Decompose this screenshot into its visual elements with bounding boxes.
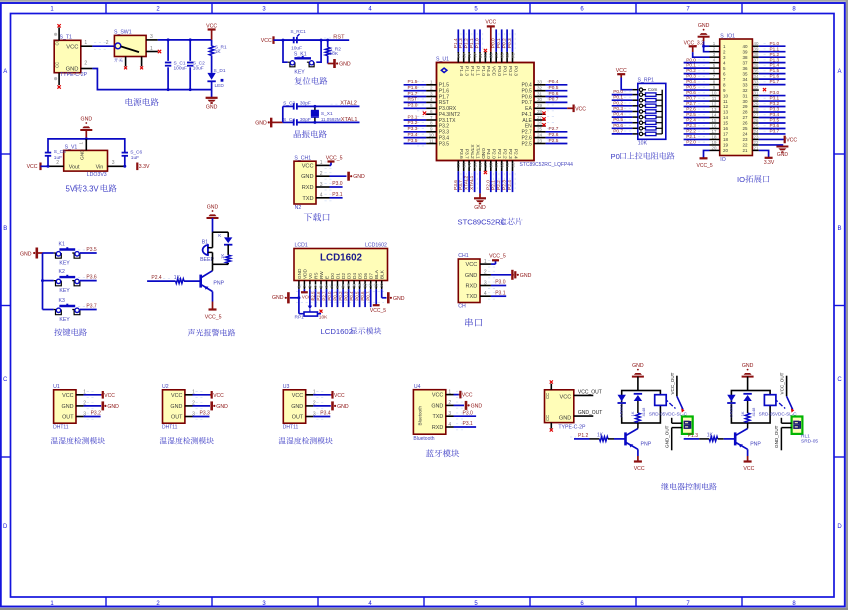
wire net P0.5 (LCD) <box>359 289 361 307</box>
capacitor S_C6 1uF <box>122 149 143 166</box>
svg-text:7: 7 <box>430 115 433 120</box>
power port GND (download) <box>349 172 365 181</box>
wire GND to alarm node <box>212 218 214 232</box>
svg-text:34: 34 <box>510 53 515 59</box>
svg-text:3: 3 <box>112 160 115 166</box>
svg-text:39: 39 <box>742 49 748 54</box>
MCU pin 14 (XTAL2) <box>467 161 472 172</box>
svg-text:21: 21 <box>742 148 748 153</box>
svg-text:CH1: CH1 <box>458 253 468 259</box>
no-connect X on MCU pin 26 <box>542 123 545 126</box>
svg-text:28: 28 <box>754 107 759 112</box>
svg-text:19: 19 <box>712 140 717 145</box>
svg-text:24: 24 <box>537 132 543 137</box>
svg-text:KEY: KEY <box>59 288 70 294</box>
wire LCD BLA pin15 to VCC_5 <box>370 289 386 314</box>
svg-text:P1.3: P1.3 <box>458 38 464 48</box>
connector CH1 serial <box>458 253 497 309</box>
svg-text:25: 25 <box>742 126 748 131</box>
MCU pin 3 (P1.7) <box>417 91 437 99</box>
svg-text:P2.1: P2.1 <box>686 134 696 139</box>
svg-text:GND_OUT: GND_OUT <box>774 425 779 448</box>
wire net P2.0 (IO left) <box>684 144 710 146</box>
wire net P1.3 (IO right) <box>759 62 786 64</box>
svg-text:GND: GND <box>339 62 351 68</box>
svg-text:P3.7: P3.7 <box>86 304 97 310</box>
capacitor S_C4 30pF <box>283 117 311 126</box>
title 按键电路 <box>54 328 87 336</box>
svg-text:P2.1: P2.1 <box>491 180 497 190</box>
wire net P3.0 (U4 TXD) <box>454 415 477 417</box>
svg-text:P1.2: P1.2 <box>464 38 470 48</box>
svg-text:BLK: BLK <box>380 269 385 279</box>
title 温湿度检测模块 (U3) <box>278 437 332 444</box>
no-connect X on MCU pin 39 <box>484 49 487 52</box>
wire net P2.2 (MCU bottom) <box>501 171 503 192</box>
connector RL (relay P1.2) <box>664 417 692 451</box>
svg-text:B: B <box>3 226 7 232</box>
resistor 1K (relay branch P1.3) <box>740 401 750 423</box>
svg-text:P2.5: P2.5 <box>522 141 533 147</box>
svg-text:P2.4: P2.4 <box>512 149 518 159</box>
svg-text:2: 2 <box>84 61 87 67</box>
wire net P3.1 (U4 RXD) <box>454 426 477 428</box>
wire net P1.7 (IO right) <box>759 84 786 86</box>
svg-text:27: 27 <box>742 115 748 120</box>
svg-text:LCD1: LCD1 <box>295 243 308 249</box>
LCD pin 1 (GND) <box>296 281 301 290</box>
svg-text:1K: 1K <box>597 433 604 439</box>
svg-text:16: 16 <box>379 283 384 288</box>
wire net P2.6 (IO left) <box>684 111 710 113</box>
wire net P0.4 (pull-up) <box>612 116 633 118</box>
MCU pin 8 (P3.2) <box>417 121 437 129</box>
resistor S_R2 10K <box>325 40 341 63</box>
capacitor S_C1 100uF <box>165 40 187 90</box>
svg-text:S_IO1: S_IO1 <box>720 34 735 40</box>
wire net P2.6 (MCU right) <box>546 137 568 139</box>
wire T1-VCC to switch <box>92 45 114 47</box>
svg-text:P3.6: P3.6 <box>86 275 97 281</box>
power port VCC_5 (alarm) <box>205 302 222 321</box>
power port VCC_5 (download) <box>326 155 343 165</box>
connector S_T1 TYPE-C-2P <box>54 28 92 86</box>
MCU pin 24 (P2.6) <box>534 132 555 137</box>
LCD pin 16 (BLK) <box>379 281 384 290</box>
svg-text:P0.1: P0.1 <box>496 38 502 48</box>
svg-text:11: 11 <box>723 99 728 104</box>
svg-text:GND: GND <box>80 149 86 160</box>
svg-text:1K: 1K <box>220 254 225 259</box>
wire net P1.1 (IO right) <box>759 51 786 53</box>
svg-text:VCC: VCC <box>206 23 217 29</box>
power port VCC (relay P1.2) <box>634 456 645 472</box>
svg-text:33: 33 <box>742 82 748 87</box>
svg-text:P0.6: P0.6 <box>686 90 696 95</box>
wire net P3.3 (MCU left) <box>404 131 427 133</box>
wire net P0.1 (IO left) <box>684 67 710 69</box>
svg-text:GND: GND <box>393 296 405 302</box>
svg-text:25: 25 <box>754 123 759 128</box>
wire net P0.0 (LCD) <box>331 289 333 307</box>
wire U2 VCC <box>193 394 211 396</box>
wire net P0.7 (LCD) <box>370 289 372 307</box>
buzzer B1 BEEP <box>200 232 214 264</box>
wire net P2.3 (MCU bottom) <box>506 171 508 192</box>
svg-text:P2.3: P2.3 <box>686 123 696 128</box>
svg-text:P0.5: P0.5 <box>549 85 559 91</box>
svg-text:VCC: VCC <box>27 164 38 170</box>
svg-text:10K: 10K <box>638 141 648 147</box>
svg-text:VCC_5: VCC_5 <box>489 254 506 260</box>
wire net P3.1 (MCU left) <box>404 119 427 121</box>
svg-text:36: 36 <box>500 53 505 59</box>
svg-text:P3.2: P3.2 <box>91 411 102 417</box>
svg-text:31: 31 <box>537 91 543 96</box>
svg-text:P3.4: P3.4 <box>408 132 418 138</box>
svg-text:P3.4: P3.4 <box>320 411 331 417</box>
svg-text:27: 27 <box>754 112 759 117</box>
MCU pin 34 (P0.3) <box>510 52 515 63</box>
svg-text:P1.4: P1.4 <box>770 63 780 68</box>
svg-text:P0.6: P0.6 <box>360 291 365 301</box>
title 电源电路 <box>126 98 159 106</box>
LCD pin 2 (VDD) <box>302 281 307 290</box>
svg-text:Bluetooth: Bluetooth <box>418 406 423 426</box>
svg-text:1: 1 <box>78 142 83 145</box>
svg-text:3.3V: 3.3V <box>764 160 775 166</box>
no-connect X on MCU pin 27 <box>542 117 545 120</box>
resistor pack S_RP1 10K <box>632 78 665 147</box>
svg-text:37: 37 <box>494 53 499 59</box>
svg-text:28: 28 <box>537 109 543 114</box>
svg-text:P0.2: P0.2 <box>338 291 343 301</box>
LCD pin 11 (D4) <box>352 281 357 290</box>
svg-text:VCC_OUT: VCC_OUT <box>578 389 602 395</box>
IO right pin stubs <box>752 41 759 150</box>
wire IO pin23 to VCC <box>759 138 784 140</box>
svg-text:GND: GND <box>297 268 302 279</box>
MCU pin 21 (P2.3) <box>505 161 510 172</box>
svg-text:P0.2: P0.2 <box>507 66 513 76</box>
wire net P2.7 (MCU right) <box>546 131 568 133</box>
svg-text:GND: GND <box>107 404 119 410</box>
svg-text:P0.6: P0.6 <box>549 91 559 97</box>
no-connect X on RP1 <box>320 310 323 313</box>
svg-text:34: 34 <box>754 74 759 79</box>
LCD pin 5 (RW) <box>319 281 324 290</box>
wire reset left branch <box>283 40 288 62</box>
svg-text:Com: Com <box>648 87 658 92</box>
MCU pin 28 (P4.1) <box>534 109 555 114</box>
svg-text:CC: CC <box>545 393 550 399</box>
relay driver frame P1.2 <box>622 391 661 424</box>
wire net P2.7 (LCD) <box>326 289 328 307</box>
svg-text:P3.3: P3.3 <box>200 411 211 417</box>
LCD pin 7 (D0) <box>330 281 335 290</box>
svg-text:XTAL2: XTAL2 <box>340 101 357 107</box>
wire net P3.6 (MCU bottom) <box>457 171 459 192</box>
svg-text:44: 44 <box>456 53 461 59</box>
MCU pin 10 (P3.4) <box>417 132 437 140</box>
svg-text:33: 33 <box>754 79 759 84</box>
wire net P1.1 (MCU top) <box>474 29 476 52</box>
svg-text:KEY: KEY <box>294 70 305 76</box>
svg-text:18: 18 <box>723 137 729 142</box>
svg-text:P1.4: P1.4 <box>458 66 464 76</box>
svg-text:TYPE-C-2P: TYPE-C-2P <box>60 72 88 78</box>
MCU pin 7 (P3.1TX) <box>417 115 437 123</box>
svg-text:P0.1: P0.1 <box>332 291 337 301</box>
svg-text:S_C5: S_C5 <box>54 149 66 155</box>
wire net P1.2 (IO right) <box>759 56 786 58</box>
wire net P0.7 (pull-up) <box>612 133 633 135</box>
svg-text:K1: K1 <box>59 242 65 248</box>
wire LCD BLK pin16 to GND right <box>381 289 383 298</box>
svg-text:P2.4: P2.4 <box>686 118 696 123</box>
wire LCD V0 pin3 to potentiometer wiper <box>309 289 311 307</box>
wire net P0.3 (IO left) <box>684 78 710 80</box>
svg-text:GND: GND <box>62 404 74 410</box>
wire net P2.5 (MCU right) <box>546 143 568 145</box>
potentiometer RP1 10K <box>295 306 329 321</box>
wire net P1.6 (IO right) <box>759 78 786 80</box>
svg-text:KEY: KEY <box>59 261 70 267</box>
power port GND (alarm) <box>207 204 219 218</box>
wire alarm loop bottom <box>227 263 229 264</box>
svg-text:P0.4: P0.4 <box>549 79 559 85</box>
svg-text:TXD: TXD <box>302 196 313 202</box>
power port VCC_3.3 (IO pin3) <box>684 40 705 52</box>
svg-text:GND: GND <box>291 404 303 410</box>
svg-text:P0.0: P0.0 <box>496 66 502 76</box>
svg-text:P3.3: P3.3 <box>408 126 418 132</box>
svg-text:1uF: 1uF <box>54 155 62 161</box>
svg-text:30pF: 30pF <box>300 117 311 123</box>
svg-text:P0.3: P0.3 <box>686 74 696 79</box>
title 串口 <box>465 318 482 327</box>
wire net P2.4 (MCU bottom) <box>512 171 514 192</box>
svg-text:VCC_5: VCC_5 <box>326 155 343 161</box>
svg-text:38: 38 <box>489 53 494 59</box>
MCU pin 26 (EN) <box>534 121 555 126</box>
window gray edge right <box>846 0 848 610</box>
power port VCC (EA pin) <box>567 105 586 113</box>
svg-text:P1.5: P1.5 <box>408 79 418 85</box>
wire U2 GND <box>193 405 211 407</box>
MCU pin 31 (P0.6) <box>534 91 555 96</box>
svg-text:100uF: 100uF <box>174 65 188 71</box>
svg-text:STC89C52RC: STC89C52RC <box>458 218 507 227</box>
wire net P2.6 (LCD) <box>320 289 322 307</box>
svg-text:P3.1: P3.1 <box>332 192 343 198</box>
svg-text:40: 40 <box>754 41 759 46</box>
svg-text:16: 16 <box>712 123 717 128</box>
svg-text:GND: GND <box>301 174 313 180</box>
wire relay GND stem P1.2 <box>637 377 639 391</box>
regulator S_V1 LDO3V3 <box>48 139 125 178</box>
wire EA to VCC <box>546 107 568 109</box>
svg-text:GND: GND <box>471 403 483 409</box>
power port GND (keys) <box>20 248 43 259</box>
MCU pin 19 (P2.1) <box>494 161 499 172</box>
svg-text:P1.1: P1.1 <box>474 66 480 76</box>
resistor 1K (relay base P1.2) <box>590 433 615 442</box>
title 下载口 <box>304 213 330 221</box>
svg-text:N2: N2 <box>295 205 302 211</box>
svg-text:P0.2: P0.2 <box>613 100 623 106</box>
svg-text:P0.1: P0.1 <box>613 95 623 101</box>
svg-text:P3.2: P3.2 <box>770 101 780 106</box>
svg-text:P2.1: P2.1 <box>496 149 502 159</box>
svg-text:GND: GND <box>216 404 228 410</box>
title 继电器控制电路 <box>661 483 717 490</box>
relay coil (relay P1.3) <box>764 395 776 406</box>
svg-text:8: 8 <box>430 121 433 126</box>
junction dot C6 bottom <box>123 165 126 168</box>
MCU pin 11 (P3.5) <box>417 138 437 146</box>
svg-text:P0.7: P0.7 <box>686 96 696 101</box>
wire U4 GND <box>454 404 465 406</box>
svg-text:CC: CC <box>545 415 550 421</box>
svg-text:P0.7: P0.7 <box>366 291 371 301</box>
svg-text:S_V1: S_V1 <box>65 145 78 151</box>
svg-text:14: 14 <box>467 163 472 169</box>
svg-text:P1.3: P1.3 <box>688 433 699 439</box>
MCU pin 33 (P0.4) <box>534 80 555 85</box>
svg-text:BLA: BLA <box>374 269 379 279</box>
junction dot keys row2 <box>41 279 44 282</box>
svg-text:26: 26 <box>537 121 543 126</box>
relay coil (relay P1.2) <box>655 395 667 406</box>
svg-text:VCC_5: VCC_5 <box>697 163 713 169</box>
wire net P3.1 (IO right) <box>759 100 786 102</box>
capacitor S_C3 30pF <box>283 101 311 110</box>
svg-text:29: 29 <box>754 101 759 106</box>
connector T2 TYPE-C-2P (relay power) <box>545 384 594 431</box>
svg-text:VCC: VCC <box>104 393 115 399</box>
svg-text:P2.2: P2.2 <box>686 129 696 134</box>
svg-text:GND: GND <box>520 273 532 279</box>
svg-text:P3.6: P3.6 <box>458 149 464 159</box>
svg-text:P0.3: P0.3 <box>507 38 513 48</box>
wire net P3.5 (MCU left) <box>404 143 427 145</box>
svg-text:37: 37 <box>754 58 759 63</box>
wire keys row3 stub <box>43 309 54 311</box>
svg-text:P3.5: P3.5 <box>86 247 97 253</box>
IO left pin stubs <box>710 41 720 150</box>
wire keys common <box>43 252 54 254</box>
wire net P2.1 (IO left) <box>684 138 710 140</box>
no-connect X on MCU pin 6 <box>423 112 426 115</box>
svg-text:OUT: OUT <box>171 415 183 421</box>
svg-text:10K: 10K <box>330 51 339 57</box>
svg-text:23: 23 <box>754 134 759 139</box>
svg-text:VCC: VCC <box>485 20 496 26</box>
svg-text:P3.7: P3.7 <box>770 129 780 134</box>
title 复位电路 <box>294 77 327 85</box>
svg-text:CC: CC <box>55 62 60 68</box>
svg-text:S_RP1: S_RP1 <box>638 78 655 84</box>
connector S_IO1 body <box>720 34 753 163</box>
svg-text:30pF: 30pF <box>300 101 311 107</box>
svg-text:XTAL2: XTAL2 <box>469 144 475 159</box>
svg-text:XTAL1: XTAL1 <box>474 144 480 159</box>
power port GND (MCU) <box>474 193 486 210</box>
svg-text:P0.1: P0.1 <box>686 63 696 68</box>
title 晶振电路 <box>294 130 327 138</box>
transistor Q1 PNP (alarm) <box>201 264 225 301</box>
power port GND (LCD right) <box>388 292 404 303</box>
wire net P1.7 (MCU left) <box>404 96 427 98</box>
svg-text:S_RC1: S_RC1 <box>290 29 306 35</box>
svg-text:1K: 1K <box>707 433 714 439</box>
svg-text:GND: GND <box>20 251 32 257</box>
svg-text:TXD: TXD <box>433 414 444 420</box>
svg-text:38: 38 <box>742 55 748 60</box>
svg-text:KEY: KEY <box>59 317 70 323</box>
wire net P2.5 (IO left) <box>684 117 710 119</box>
svg-text:IO: IO <box>737 175 745 184</box>
resistor 1K (relay base P1.3) <box>699 433 724 442</box>
title 5V转3.3V电路 <box>66 184 117 193</box>
no-connect X on switch pin 1 <box>158 50 161 53</box>
svg-text:1uF: 1uF <box>131 155 139 161</box>
svg-text:VCC: VCC <box>62 393 73 399</box>
wire net P2.7 (IO left) <box>684 106 710 108</box>
junction dots on ground rail <box>167 88 170 91</box>
MCU pin 15 (XTAL1) <box>472 161 477 172</box>
MCU pin 20 (P2.2) <box>500 161 505 172</box>
wire net P0.1 (LCD) <box>337 289 339 307</box>
power port GND (power circuit) <box>206 98 218 111</box>
svg-text:D6: D6 <box>363 273 368 279</box>
svg-text:P3.1: P3.1 <box>495 290 506 296</box>
svg-text:4148: 4148 <box>641 407 646 417</box>
LCD pin 13 (D6) <box>363 281 368 290</box>
svg-text:1K: 1K <box>630 411 635 416</box>
svg-text:10uF: 10uF <box>193 65 204 71</box>
svg-text:P2.5: P2.5 <box>549 138 559 144</box>
title IO拓展口 <box>737 175 769 184</box>
power port VCC (IO right) <box>785 136 798 144</box>
svg-text:GND: GND <box>698 23 710 29</box>
svg-text:34: 34 <box>742 77 748 82</box>
wire net P2.5 (LCD) <box>315 289 317 307</box>
MCU pin 23 (P2.5) <box>534 138 555 143</box>
svg-text:D5: D5 <box>358 273 363 279</box>
svg-text:VCC: VCC <box>261 38 272 44</box>
svg-text:P3.7: P3.7 <box>458 180 464 190</box>
wire net P0.4 (IO left) <box>684 84 710 86</box>
wire U1 GND <box>84 405 102 407</box>
svg-text:14: 14 <box>712 112 717 117</box>
ground rail wire (power circuit) <box>168 89 212 91</box>
svg-text:D3: D3 <box>347 273 352 279</box>
svg-text:P1.3: P1.3 <box>770 57 780 62</box>
svg-text:D: D <box>837 524 842 530</box>
svg-text:19: 19 <box>723 143 729 148</box>
svg-text:P1.6: P1.6 <box>408 85 418 91</box>
svg-text:3.3V: 3.3V <box>139 164 150 170</box>
no-connect X on IO pin 32 <box>763 88 766 91</box>
module U1 DHT11 <box>53 384 96 431</box>
LED GREEN1 (relay P1.2) <box>618 395 626 418</box>
wire reset right branch <box>297 39 321 41</box>
svg-text:P3.5: P3.5 <box>408 138 418 144</box>
svg-text:3: 3 <box>430 91 433 96</box>
power port GND (U2) <box>212 401 228 410</box>
